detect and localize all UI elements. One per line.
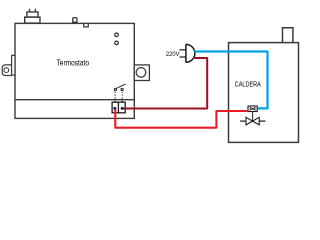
socket circle [136,68,146,78]
valve body bowtie [246,117,259,125]
wire bright red: thermostat terminal to valve [115,109,248,128]
dotted link left [114,92,116,107]
pipe stub left [240,120,246,122]
indicator hole upper [115,33,119,37]
boiler chimney [283,28,293,43]
actuator glyph [250,107,255,110]
svg-text:CALDERA: CALDERA [235,82,262,89]
socket box on right side of thermostat [134,65,149,81]
valve stem [252,112,254,122]
left side knob circle [4,68,9,73]
terminal block divider [117,102,119,113]
dotted link right [121,92,123,107]
plug prong upper [180,49,187,51]
plug body [186,44,195,62]
thermostat internal divider line [15,99,134,101]
switch contact right [121,88,123,90]
valve actuator box [248,106,257,112]
left side lever strip [12,55,15,75]
svg-text:220V: 220V [166,52,180,58]
terminal block [112,102,125,113]
pipe stub right [259,120,265,122]
plug prong lower [180,56,187,58]
svg-text:Termostato: Termostato [57,59,90,68]
terminal dot right [121,107,124,110]
boiler enclosure [229,43,299,143]
wire blue phase: plug to valve [194,52,267,109]
indicator hole lower [115,41,119,45]
transformer on top of thermostat [25,9,40,23]
left side knob housing [2,65,11,76]
button on top of thermostat [72,18,78,23]
terminal dot left [113,107,116,110]
switch contact left [114,88,116,90]
wire dark red: plug to thermostat terminal [123,58,207,109]
clip notch below top edge [84,24,89,27]
switch lever [116,84,125,88]
thermostat enclosure [15,23,134,118]
